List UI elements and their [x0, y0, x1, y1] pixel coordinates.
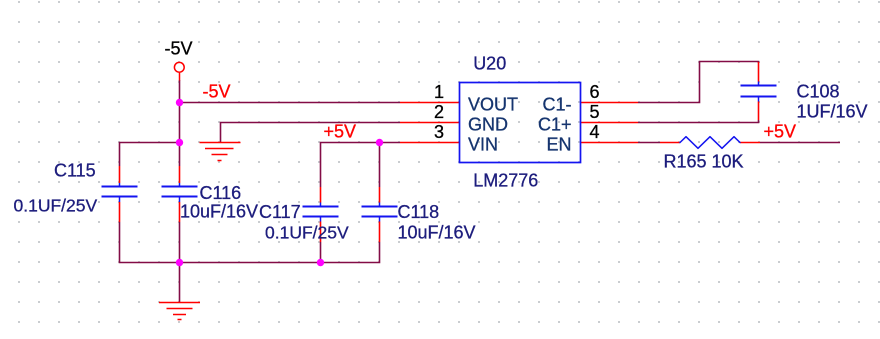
svg-text:4: 4	[590, 122, 600, 142]
node junction (179,102)	[176, 99, 183, 106]
wire pin5 to C108 bottom	[638, 120, 759, 123]
wire C118 top drop	[379, 143, 381, 188]
capacitor C108	[741, 62, 777, 120]
wire GND pin2 to ground symbol	[221, 123, 401, 143]
node junction (320,262)	[317, 259, 324, 266]
wire +5V net C117 corner to pin3	[321, 143, 401, 188]
svg-text:C1-: C1-	[542, 95, 571, 115]
svg-text:2: 2	[434, 102, 444, 122]
wire C115 bottom, ground bus, up to C118 bottom	[120, 222, 380, 263]
svg-text:1UF/16V: 1UF/16V	[797, 102, 868, 122]
svg-text:3: 3	[434, 122, 444, 142]
svg-text:LM2776: LM2776	[473, 171, 538, 191]
node junction (179,262)	[176, 259, 183, 266]
resistor R165	[660, 137, 760, 149]
wire pin4 to resistor	[638, 142, 660, 144]
pin 3 stub	[400, 142, 460, 144]
svg-text:C117: C117	[259, 202, 301, 222]
wire +5V output right	[760, 142, 840, 144]
svg-text:6: 6	[590, 82, 600, 102]
svg-text:U20: U20	[473, 54, 506, 74]
svg-text:C108: C108	[797, 82, 840, 102]
op-amp U20 body	[460, 83, 581, 163]
svg-text:VOUT: VOUT	[468, 95, 518, 115]
power terminal -5V circle	[174, 62, 184, 72]
svg-text:10uF/16V: 10uF/16V	[398, 223, 476, 243]
pin 4 stub	[581, 142, 639, 144]
capacitor C116	[162, 166, 198, 222]
wire C116 bottom through bus junction to lower ground	[179, 222, 181, 302]
svg-text:GND: GND	[468, 115, 508, 135]
svg-text:1: 1	[434, 82, 444, 102]
svg-text:0.1UF/25V: 0.1UF/25V	[265, 223, 349, 243]
capacitor C115	[102, 166, 138, 222]
wire -5V vertical column x=179	[179, 80, 181, 166]
ground (upper, GND pin)	[200, 143, 241, 161]
svg-text:+5V: +5V	[324, 122, 357, 142]
svg-text:EN: EN	[546, 135, 571, 155]
svg-text:-5V: -5V	[203, 82, 231, 102]
pin 6 stub	[581, 102, 639, 104]
ground (lower, bus)	[159, 303, 200, 320]
capacitor C118	[362, 187, 398, 242]
svg-text:0.1UF/25V: 0.1UF/25V	[14, 196, 98, 216]
power terminal stub	[179, 73, 181, 81]
svg-text:10uF/16V: 10uF/16V	[180, 202, 258, 222]
wire junction to C115 top corner	[120, 143, 180, 167]
svg-text:C118: C118	[398, 202, 440, 222]
svg-text:C115: C115	[54, 161, 96, 181]
pin 1 stub	[400, 102, 460, 104]
node junction (379,142)	[376, 139, 383, 146]
svg-text:C116: C116	[200, 183, 242, 203]
wire C117 bottom to bus	[320, 242, 322, 263]
pin 5 stub	[581, 122, 639, 124]
pin 2 stub	[400, 122, 460, 124]
node junction (179,142)	[176, 139, 183, 146]
svg-text:-5V: -5V	[165, 39, 193, 59]
wire pin6 loop to C108 top	[638, 62, 759, 103]
svg-text:+5V: +5V	[764, 122, 797, 142]
svg-text:VIN: VIN	[468, 135, 498, 155]
svg-text:R165 10K: R165 10K	[664, 152, 744, 172]
wire -5V net to pin1	[180, 102, 401, 104]
svg-text:5: 5	[590, 102, 600, 122]
capacitor C117	[303, 187, 339, 242]
svg-text:C1+: C1+	[538, 115, 572, 135]
